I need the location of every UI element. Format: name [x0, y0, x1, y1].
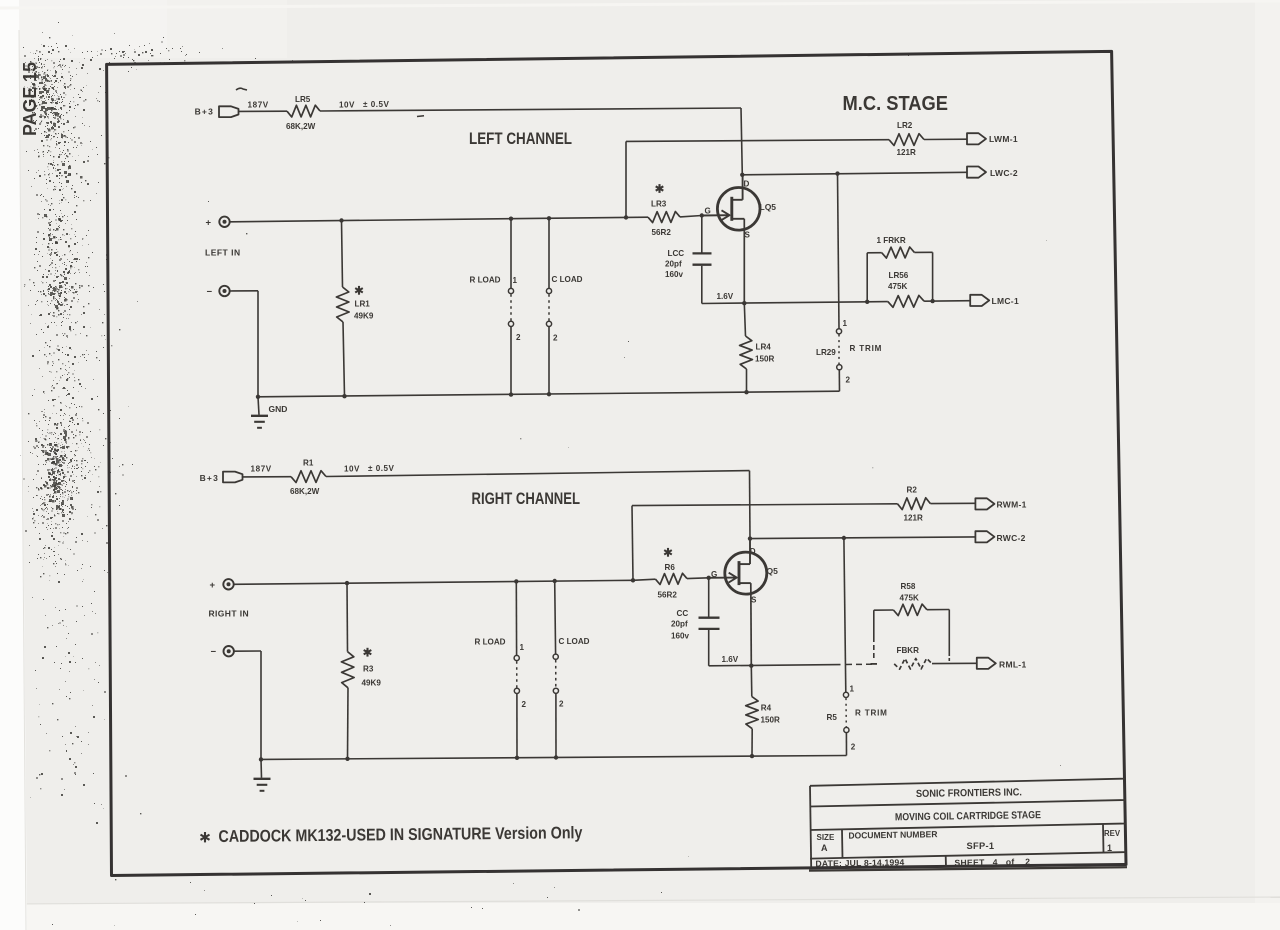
wire B+3 to R1 [243, 476, 291, 478]
svg-text:R LOAD: R LOAD [470, 276, 501, 285]
wire gate feed vertical (right) [632, 506, 633, 581]
node R3 bottom junction [345, 757, 349, 761]
svg-text:1 FRKR: 1 FRKR [877, 236, 906, 245]
svg-text:LR29: LR29 [816, 348, 836, 357]
resistor R58 475K feedback loop [873, 610, 875, 642]
svg-text:G: G [711, 570, 717, 579]
svg-text:C LOAD: C LOAD [559, 637, 590, 646]
wire left - to ground corner [230, 290, 258, 292]
resistor LR1 49K9 [342, 221, 343, 288]
svg-text:LEFT CHANNEL: LEFT CHANNEL [469, 130, 572, 148]
wire right - to ground corner [234, 650, 261, 652]
svg-text:R6: R6 [665, 563, 676, 572]
wire drain node to RWC-2 line [750, 537, 975, 539]
svg-text:49K9: 49K9 [354, 312, 374, 321]
ground symbol left channel [258, 397, 259, 415]
svg-text:−: − [211, 647, 217, 658]
connector LWM-1 [967, 133, 986, 144]
svg-text:150R: 150R [755, 355, 775, 364]
svg-text:2: 2 [559, 699, 564, 708]
svg-text:G: G [705, 207, 711, 216]
node ground corner junction [256, 395, 260, 399]
svg-text:150R: 150R [761, 716, 781, 725]
svg-text:± 0.5V: ± 0.5V [368, 464, 394, 473]
svg-text:B+3: B+3 [195, 107, 214, 117]
node source junction [742, 301, 746, 305]
transistor Q5 JFET [725, 552, 767, 594]
switch R LOAD (left) [510, 219, 512, 289]
svg-text:2: 2 [846, 376, 851, 385]
svg-text:56R2: 56R2 [658, 591, 678, 600]
svg-text:S: S [745, 231, 751, 240]
node C LOAD bottom junction [547, 392, 551, 396]
svg-text:187V: 187V [248, 101, 269, 110]
capacitor CC 20pf 160v [708, 578, 710, 617]
svg-text:SFP-1: SFP-1 [967, 841, 995, 851]
wire 1.6V source node line (right) [709, 665, 841, 666]
node R LOAD bottom junction [509, 392, 513, 396]
wire drain node to LWC-2 line [742, 172, 967, 175]
resistor R4 150R (right) [750, 666, 753, 697]
node LR56 left junction [865, 300, 869, 304]
node source junction (right) [749, 664, 753, 668]
right ground rail [261, 756, 847, 760]
resistor R6 56R2 gate stopper [633, 579, 656, 580]
svg-text:1.6V: 1.6V [722, 655, 739, 664]
switch C LOAD (right) [554, 581, 557, 654]
wire LR56 to LMC-1 [924, 300, 970, 303]
stray scan marks [236, 88, 247, 90]
svg-text:1: 1 [513, 276, 518, 285]
svg-text:RIGHT CHANNEL: RIGHT CHANNEL [472, 490, 581, 508]
title block bottom double border [809, 867, 1127, 870]
svg-text:1: 1 [850, 684, 855, 693]
svg-text:20pf: 20pf [671, 619, 688, 628]
svg-text:LR3: LR3 [651, 200, 667, 209]
node LR56 right junction [930, 299, 934, 303]
node R3 top junction [345, 581, 349, 585]
trimmer R5 R TRIM (right) [844, 538, 846, 692]
left ground rail [258, 391, 840, 397]
node R TRIM tap junction (right) [842, 536, 846, 540]
scan speckle noise [23, 22, 909, 925]
svg-text:DOCUMENT NUMBER: DOCUMENT NUMBER [848, 829, 938, 840]
node LR1 top junction [339, 218, 343, 222]
node R TRIM tap junction [835, 171, 839, 175]
wire LWM-1 line [626, 140, 889, 142]
svg-text:68K,2W: 68K,2W [290, 487, 320, 496]
svg-text:DATE: JUL 8-14,1994: DATE: JUL 8-14,1994 [815, 857, 904, 868]
title block outline [810, 786, 811, 868]
node C LOAD top junction (right) [553, 579, 557, 583]
svg-text:1: 1 [843, 319, 848, 328]
svg-text:R TRIM: R TRIM [855, 709, 888, 718]
node drain Q5 junction [748, 536, 752, 540]
node C LOAD bottom junction (right) [554, 755, 558, 759]
resistor R3 49K9 [346, 583, 349, 652]
wire B+ rail left channel [320, 108, 741, 111]
svg-text:20pf: 20pf [665, 259, 682, 268]
node R LOAD top junction [509, 217, 513, 221]
svg-text:GND: GND [269, 404, 288, 414]
svg-text:LR1: LR1 [355, 300, 371, 309]
svg-text:C LOAD: C LOAD [552, 275, 583, 284]
note CADDOCK MK132 [201, 832, 210, 842]
svg-text:2: 2 [553, 334, 558, 343]
wire right + rail [234, 580, 633, 584]
svg-text:LEFT IN: LEFT IN [205, 248, 241, 258]
wire FBKR to RML-1 [932, 662, 977, 664]
svg-text:1: 1 [1107, 843, 1112, 853]
svg-text:160v: 160v [665, 270, 684, 279]
wire R2 to RWM-1 [930, 502, 975, 504]
drawing frame border [107, 51, 1126, 875]
svg-text:A: A [821, 843, 828, 853]
wire left + rail [230, 217, 626, 221]
svg-text:475K: 475K [900, 593, 920, 602]
wire 1.6V source node line [702, 302, 888, 304]
connector LMC-1 [970, 295, 989, 306]
node R LOAD top junction (right) [514, 579, 518, 583]
trimmer LR29 R TRIM (left) [838, 174, 840, 329]
node gate junction [700, 213, 704, 217]
svg-text:MOVING COIL CARTRIDGE STAGE: MOVING COIL CARTRIDGE STAGE [895, 810, 1041, 823]
node LR4 bottom junction [744, 390, 748, 394]
svg-text:LR2: LR2 [897, 121, 913, 130]
svg-text:S: S [751, 596, 757, 605]
wire B+3 to LR5 [239, 110, 287, 112]
wire B+ drop to drain Q5 [749, 471, 752, 539]
svg-text:R5: R5 [827, 713, 838, 722]
capacitor LCC 20pf 160v [701, 216, 703, 253]
svg-text:R LOAD: R LOAD [475, 638, 506, 647]
svg-text:121R: 121R [904, 514, 924, 523]
svg-text:RWC-2: RWC-2 [997, 533, 1026, 543]
svg-text:−: − [207, 287, 213, 298]
node gate resistor junction [624, 215, 628, 219]
svg-text:PAGE 15: PAGE 15 [19, 62, 40, 136]
connector RML-1 [977, 658, 996, 669]
svg-text:SIZE: SIZE [817, 833, 835, 842]
switch R LOAD (right) [515, 581, 517, 655]
svg-text:LR56: LR56 [889, 271, 909, 280]
resistor LR5 68K,2W [287, 105, 320, 117]
svg-text:B+3: B+3 [200, 473, 219, 483]
svg-text:56R2: 56R2 [652, 228, 672, 237]
resistor LR4 150R [744, 303, 745, 336]
svg-text:475K: 475K [888, 282, 908, 291]
svg-text:LR5: LR5 [295, 95, 311, 104]
node ground corner junction (right) [259, 757, 263, 761]
node LR1 bottom junction [342, 394, 346, 398]
node R4 bottom junction (right) [750, 754, 754, 758]
svg-text:10V: 10V [344, 464, 360, 473]
node drain LQ5 junction [740, 173, 744, 177]
switch C LOAD (left) [548, 218, 550, 288]
resistor R1 68K,2W [291, 471, 326, 483]
wire B+ rail right channel [326, 471, 750, 477]
svg-text:LWM-1: LWM-1 [989, 134, 1018, 144]
connector LWC-2 [967, 167, 986, 178]
wire gate feed vertical [625, 141, 627, 217]
wire 1.6V dashed continuation [846, 663, 874, 665]
resistor LR3 56R2 gate stopper [626, 216, 648, 218]
wire B+ drop to drain LQ5 [741, 108, 742, 175]
svg-text:R58: R58 [901, 582, 916, 591]
svg-text:Q5: Q5 [767, 566, 779, 576]
svg-text:1.6V: 1.6V [717, 292, 734, 301]
node R LOAD bottom junction (right) [515, 756, 519, 760]
transistor LQ5 JFET [717, 188, 760, 231]
svg-text:R4: R4 [761, 704, 772, 713]
svg-text:CC: CC [677, 609, 689, 618]
svg-text:RWM-1: RWM-1 [997, 500, 1027, 510]
svg-text:1: 1 [520, 643, 525, 652]
svg-text:R TRIM: R TRIM [850, 344, 883, 353]
svg-text:49K9: 49K9 [362, 679, 382, 688]
svg-text:FBKR: FBKR [897, 646, 920, 655]
svg-text:R2: R2 [907, 485, 918, 494]
svg-text:RML-1: RML-1 [999, 660, 1026, 670]
node gate junction (right) [707, 576, 711, 580]
svg-text:R1: R1 [303, 459, 314, 468]
svg-text:± 0.5V: ± 0.5V [363, 100, 389, 109]
svg-text:+: + [206, 218, 212, 229]
svg-text:LQ5: LQ5 [760, 202, 777, 212]
svg-text:D: D [750, 547, 756, 556]
svg-text:LWC-2: LWC-2 [990, 168, 1018, 178]
svg-text:RIGHT IN: RIGHT IN [209, 609, 250, 619]
svg-text:LMC-1: LMC-1 [992, 296, 1019, 306]
svg-text:LCC: LCC [668, 249, 685, 258]
node C LOAD top junction [547, 216, 551, 220]
node gate resistor junction (right) [631, 578, 635, 582]
wire LR2 to LWM-1 [924, 138, 967, 140]
ground symbol right channel [260, 759, 263, 777]
resistor R2 121R [898, 498, 931, 510]
svg-text:68K,2W: 68K,2W [286, 122, 316, 131]
svg-text:SONIC FRONTIERS INC.: SONIC FRONTIERS INC. [916, 787, 1022, 800]
svg-text:2: 2 [851, 742, 856, 751]
svg-text:LR4: LR4 [756, 343, 772, 352]
resistor 1 FRKR feedback loop [866, 253, 868, 302]
svg-text:D: D [744, 180, 750, 189]
svg-text:+: + [210, 580, 216, 591]
svg-text:CADDOCK MK132-USED IN SIGNATUR: CADDOCK MK132-USED IN SIGNATURE Version … [218, 823, 583, 846]
resistor FBKR (right) [894, 658, 932, 669]
wire RWM-1 line [632, 504, 898, 506]
resistor LR56 475K [888, 295, 924, 307]
connector RWM-1 [975, 498, 994, 509]
resistor LR2 121R [889, 134, 924, 146]
svg-text:M.C. STAGE: M.C. STAGE [843, 92, 949, 115]
svg-text:SHEET 4 of 2: SHEET 4 of 2 [954, 857, 1030, 868]
svg-text:10V: 10V [339, 100, 355, 109]
connector RWC-2 [975, 531, 994, 542]
svg-text:2: 2 [516, 333, 521, 342]
svg-text:2: 2 [522, 700, 527, 709]
svg-text:160v: 160v [671, 632, 690, 641]
svg-text:REV: REV [1104, 829, 1121, 838]
svg-text:R3: R3 [363, 665, 374, 674]
svg-text:187V: 187V [251, 465, 272, 474]
svg-text:121R: 121R [897, 148, 917, 157]
